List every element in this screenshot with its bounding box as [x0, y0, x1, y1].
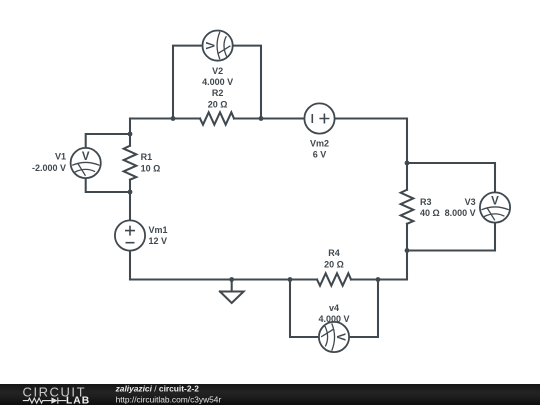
node dot right col R3 top	[405, 161, 410, 166]
voltage source Vm1	[115, 220, 145, 250]
node dot left col V1 top	[128, 132, 133, 137]
svg-text:V: V	[206, 41, 218, 49]
svg-text:20 Ω: 20 Ω	[324, 259, 344, 269]
ground	[220, 280, 244, 304]
wire V2 parallel loop	[173, 46, 261, 119]
svg-text:8.000 V: 8.000 V	[445, 208, 476, 218]
svg-text:zaliyazici / circuit-2-2: zaliyazici / circuit-2-2	[115, 384, 200, 394]
wire right column lower	[406, 224, 408, 280]
wire V3 parallel loop	[407, 163, 495, 251]
svg-text:V: V	[334, 333, 346, 341]
svg-text:R1: R1	[141, 152, 153, 162]
resistor R3	[401, 190, 414, 224]
svg-text:V: V	[82, 151, 90, 163]
logo diode	[51, 397, 57, 403]
svg-text:10 Ω: 10 Ω	[141, 163, 161, 173]
voltage source Vm2	[304, 103, 334, 133]
node dot left col V1 bottom	[128, 190, 133, 195]
svg-text:V2: V2	[212, 66, 223, 76]
svg-text:20 Ω: 20 Ω	[208, 99, 228, 109]
node dot ground	[229, 277, 234, 282]
node dot top wire left	[171, 116, 176, 121]
wire R2 to top-right corner	[234, 117, 407, 119]
svg-text:V: V	[491, 196, 499, 208]
voltmeter v4	[319, 322, 349, 352]
svg-text:6 V: 6 V	[313, 149, 327, 159]
svg-text:LAB: LAB	[66, 396, 90, 405]
wire v4 parallel loop	[290, 280, 378, 338]
wire top-left to R2	[130, 117, 200, 119]
wire V1 parallel loop	[86, 134, 130, 192]
voltmeter V3	[480, 192, 510, 222]
svg-text:-2.000 V: -2.000 V	[32, 163, 66, 173]
svg-text:R4: R4	[328, 248, 340, 258]
logo resistor zigzag	[23, 398, 52, 403]
svg-text:v4: v4	[329, 303, 339, 313]
svg-text:4.000 V: 4.000 V	[202, 77, 233, 87]
wire bottom left	[130, 278, 317, 280]
svg-text:V1: V1	[55, 152, 66, 162]
svg-text:R2: R2	[212, 88, 224, 98]
svg-text:http://circuitlab.com/c3yw54r: http://circuitlab.com/c3yw54r	[116, 394, 222, 404]
svg-text:12 V: 12 V	[149, 236, 168, 246]
resistor R2	[200, 112, 234, 124]
svg-text:4.000 V: 4.000 V	[318, 314, 349, 324]
wire left column lower	[129, 180, 131, 280]
wire bottom right	[351, 278, 407, 280]
voltmeter V1	[71, 148, 101, 178]
svg-text:R3: R3	[420, 197, 432, 207]
svg-text:V3: V3	[465, 197, 476, 207]
node dot right col R3 bottom	[405, 248, 410, 253]
resistor R1	[124, 146, 137, 180]
wire right column upper	[406, 119, 408, 190]
node dot R4 right	[376, 277, 381, 282]
node dot top wire right	[259, 116, 264, 121]
svg-text:Vm1: Vm1	[149, 225, 168, 235]
svg-text:40 Ω: 40 Ω	[420, 208, 440, 218]
wire left column upper	[129, 119, 131, 146]
resistor R4	[317, 273, 351, 285]
svg-text:Vm2: Vm2	[310, 138, 329, 148]
voltmeter V2	[203, 31, 233, 61]
node dot R4 left	[288, 277, 293, 282]
footer bar	[0, 384, 540, 405]
